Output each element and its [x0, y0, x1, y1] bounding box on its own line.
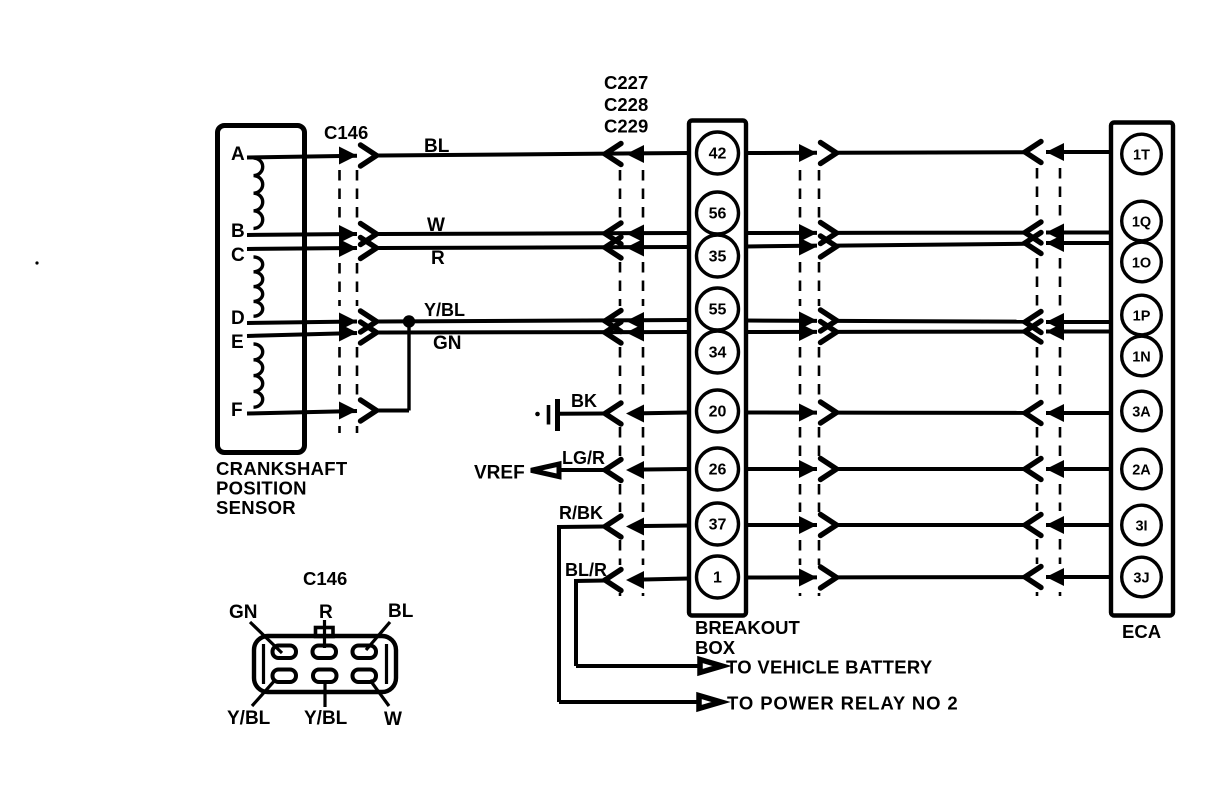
- wire label BL/R: [565, 560, 607, 580]
- ECA caption: [1122, 621, 1161, 642]
- breakout box right connector dashed line 2: [818, 170, 821, 596]
- svg-text:SENSOR: SENSOR: [216, 497, 296, 518]
- connector C146 label: [324, 122, 368, 143]
- svg-text:CRANKSHAFT: CRANKSHAFT: [216, 458, 348, 479]
- breakout box right connector arrows at y=412.5: [799, 402, 837, 423]
- svg-text:C146: C146: [324, 122, 368, 143]
- wire R/BK from breakout box pin 37 down to power relay lead: [558, 525, 690, 702]
- connector C146 dashed line 1: [338, 170, 341, 433]
- ECA connector arrows at y=243: [1025, 233, 1064, 254]
- svg-text:D: D: [231, 308, 245, 329]
- ECA pin 3I: [1122, 505, 1162, 545]
- ECA connector arrows at y=525: [1025, 515, 1064, 536]
- connector C146 face label W: [384, 709, 402, 730]
- connector C146 arrows at y=332.5: [339, 322, 377, 343]
- connector C227 arrows at y=580: [605, 570, 644, 591]
- wire label GN: [433, 333, 462, 354]
- svg-text:Y/BL: Y/BL: [227, 708, 271, 729]
- connector C146 face label Y/BL: [227, 708, 271, 729]
- breakout box pin 56: [697, 192, 739, 234]
- svg-text:BOX: BOX: [695, 637, 736, 658]
- svg-text:35: 35: [709, 249, 727, 266]
- wire label R/BK: [559, 503, 603, 523]
- svg-text:C228: C228: [604, 94, 648, 115]
- ECA connector dashed line 1: [1036, 168, 1039, 596]
- sensor pin D: [231, 308, 245, 329]
- ECA pin 3A: [1122, 391, 1162, 431]
- svg-text:ECA: ECA: [1122, 621, 1161, 642]
- wire GN from sensor pin E to breakout box pin 34: [247, 332, 689, 336]
- svg-text:1T: 1T: [1133, 148, 1150, 164]
- wire label BK: [571, 391, 597, 411]
- svg-text:Y/BL: Y/BL: [424, 300, 465, 320]
- ECA box: [1111, 123, 1173, 616]
- svg-text:1P: 1P: [1133, 309, 1151, 325]
- connector C146 arrows at y=234: [339, 224, 377, 245]
- breakout box caption: [695, 617, 801, 658]
- breakout box right connector arrows at y=246.5: [799, 236, 837, 257]
- breakout box right connector dashed line 1: [799, 170, 802, 596]
- svg-text:C146: C146: [303, 568, 347, 589]
- svg-text:BL/R: BL/R: [565, 560, 607, 580]
- svg-text:1O: 1O: [1132, 256, 1151, 272]
- connector C146 face label BL: [388, 601, 414, 622]
- wire W from sensor pin B to breakout box pin 56: [247, 233, 689, 235]
- svg-text:POSITION: POSITION: [216, 478, 307, 499]
- wire label VREF: [474, 463, 525, 484]
- svg-text:B: B: [231, 221, 245, 242]
- ECA pin 2A: [1122, 449, 1162, 489]
- ECA connector arrows at y=152: [1025, 142, 1064, 163]
- svg-text:LG/R: LG/R: [562, 448, 605, 468]
- ECA connector arrows at y=413: [1025, 403, 1064, 424]
- svg-text:TO VEHICLE BATTERY: TO VEHICLE BATTERY: [726, 657, 933, 678]
- breakout box pin 42: [697, 132, 739, 174]
- svg-text:1: 1: [713, 570, 722, 587]
- ground symbol: [535, 399, 557, 431]
- wire label W: [427, 215, 445, 236]
- ECA pin 1N: [1122, 336, 1162, 376]
- wire label LG/R: [562, 448, 605, 468]
- svg-text:C227: C227: [604, 72, 648, 93]
- svg-text:R: R: [319, 602, 333, 623]
- connector C146 face leader Y/BL middle: [323, 681, 326, 707]
- lead to vehicle battery: [576, 657, 933, 678]
- breakout box pin 35: [697, 235, 739, 277]
- breakout box pin 26: [697, 448, 739, 490]
- connector C227 dashed line 2: [642, 170, 645, 596]
- ECA pin 3J: [1122, 557, 1162, 597]
- connector C146 face leader W: [370, 680, 389, 706]
- connector C146 arrows at y=410.5: [339, 400, 377, 421]
- sensor pin C: [231, 245, 245, 266]
- sensor pin A: [231, 144, 245, 165]
- connector C227 arrows at y=154: [605, 144, 644, 165]
- svg-text:W: W: [384, 709, 402, 730]
- svg-text:42: 42: [709, 146, 727, 163]
- ECA connector dashed line 2: [1059, 168, 1062, 596]
- wire BL from sensor pin A to breakout box pin 42: [247, 153, 689, 158]
- svg-text:A: A: [231, 144, 245, 165]
- crankshaft position sensor box: [218, 126, 305, 453]
- wire Y/BL from sensor pin D to breakout box pin 55: [247, 320, 689, 323]
- ECA connector arrows at y=331.5: [1025, 321, 1064, 342]
- connector C227 arrows at y=526.5: [605, 516, 644, 537]
- svg-text:3A: 3A: [1132, 405, 1151, 421]
- breakout box right connector arrows at y=525: [799, 515, 837, 536]
- svg-text:BREAKOUT: BREAKOUT: [695, 617, 801, 638]
- svg-text:C229: C229: [604, 116, 648, 137]
- wire R from sensor pin C to breakout box pin 35: [247, 247, 689, 249]
- breakout box right connector arrows at y=153: [799, 143, 837, 164]
- svg-text:W: W: [427, 215, 445, 236]
- wire LG/R from VREF to breakout box pin 26: [559, 469, 689, 470]
- connector C146 face key tab: [316, 620, 334, 648]
- svg-text:R: R: [431, 248, 445, 269]
- breakout box right connector arrows at y=233: [799, 223, 837, 244]
- connector C227 arrows at y=470: [605, 460, 644, 481]
- wire BK from ground to breakout box pin 20: [558, 413, 690, 414]
- breakout box pin 55: [697, 288, 739, 330]
- svg-text:34: 34: [709, 345, 727, 362]
- connector C146 arrows at y=155.5: [339, 145, 377, 166]
- breakout box: [689, 121, 746, 616]
- connector C146 face label GN: [229, 602, 258, 623]
- svg-text:R/BK: R/BK: [559, 503, 603, 523]
- wire from sensor pin F to junction under Y/BL wire: [247, 321, 409, 414]
- svg-text:TO POWER RELAY NO 2: TO POWER RELAY NO 2: [727, 693, 959, 714]
- svg-text:26: 26: [709, 462, 727, 479]
- breakout box pin 37: [697, 503, 739, 545]
- svg-text:BK: BK: [571, 391, 597, 411]
- wire BL/R from breakout box pin 1 down to vehicle battery lead: [575, 579, 690, 667]
- svg-text:F: F: [231, 400, 243, 421]
- ECA pin 1O: [1122, 242, 1162, 282]
- svg-text:20: 20: [709, 404, 727, 421]
- wire breakout box pin 37 to ECA 3I: [746, 523, 1111, 527]
- connector C146 face cavity 5: [313, 670, 337, 683]
- connector C227 arrows at y=321: [605, 311, 644, 332]
- svg-text:55: 55: [709, 302, 727, 319]
- speck: [35, 261, 38, 264]
- wire breakout box pin 56 to ECA 1Q: [746, 231, 1111, 236]
- connector C227 arrows at y=247.5: [605, 237, 644, 258]
- connector C227 arrows at y=233.5: [605, 223, 644, 244]
- sensor caption: [216, 458, 348, 518]
- svg-text:Y/BL: Y/BL: [304, 708, 348, 729]
- VREF arrow: [531, 464, 559, 477]
- connector C146 face cavity 4: [273, 670, 297, 683]
- svg-text:VREF: VREF: [474, 463, 525, 484]
- connector C146 dashed line 2: [356, 170, 359, 433]
- ECA pin 1T: [1122, 134, 1162, 174]
- lead to power relay no 2: [559, 693, 959, 714]
- connector C146 face body: [254, 636, 396, 692]
- sensor pin E: [231, 332, 244, 353]
- junction dot on Y/BL wire: [403, 315, 415, 327]
- sensor coil winding A-B: [254, 158, 263, 228]
- ECA pin 1P: [1122, 295, 1162, 335]
- wire label Y/BL: [424, 300, 465, 320]
- breakout box pin 1: [697, 556, 739, 598]
- svg-text:BL: BL: [424, 136, 450, 157]
- connector C146 face label Y/BL: [304, 708, 348, 729]
- connector C227 arrows at y=332.5: [605, 322, 644, 343]
- connector C146 arrows at y=321.5: [339, 311, 377, 332]
- wire breakout box pin 26 to ECA 2A: [746, 467, 1111, 471]
- sensor coil winding C-D: [254, 257, 263, 316]
- breakout box pin 20: [697, 390, 739, 432]
- svg-text:E: E: [231, 332, 244, 353]
- wire breakout box pin 20 to ECA 3A: [746, 411, 1111, 416]
- ECA connector arrows at y=322: [1025, 312, 1064, 333]
- connector C146 face label: [303, 568, 347, 589]
- breakout box right connector arrows at y=469: [799, 459, 837, 480]
- svg-text:GN: GN: [433, 333, 462, 354]
- connector C146 arrows at y=248: [339, 238, 377, 259]
- svg-text:56: 56: [709, 206, 727, 223]
- svg-text:1N: 1N: [1132, 350, 1151, 366]
- sensor pin F: [231, 400, 243, 421]
- connector C227 arrows at y=413.5: [605, 403, 644, 424]
- svg-text:3I: 3I: [1135, 519, 1147, 535]
- ECA connector arrows at y=232.5: [1025, 222, 1064, 243]
- svg-text:1Q: 1Q: [1132, 215, 1151, 231]
- wire breakout box pin 55 to ECA 1P: [746, 321, 1111, 323]
- connector C146 face leader BL: [366, 622, 390, 650]
- svg-text:GN: GN: [229, 602, 258, 623]
- breakout box right connector arrows at y=320.5: [799, 310, 837, 331]
- connector C146 face label R: [319, 602, 333, 623]
- connector C146 face cavity 2: [313, 646, 337, 659]
- connector C146 face cavity 6: [353, 670, 377, 683]
- wire breakout box pin 34 to ECA 1N: [746, 330, 1111, 335]
- breakout box pin 34: [697, 331, 739, 373]
- breakout box right connector arrows at y=332: [799, 322, 837, 343]
- connector C146 face cavity 3: [353, 646, 377, 659]
- svg-text:C: C: [231, 245, 245, 266]
- sensor coil winding E-F: [254, 344, 263, 407]
- connector C146 face leader Y/BL left: [252, 679, 276, 706]
- ECA connector arrows at y=469: [1025, 459, 1064, 480]
- svg-text:3J: 3J: [1133, 571, 1149, 587]
- ECA pin 1Q: [1122, 201, 1162, 241]
- svg-text:37: 37: [709, 517, 727, 534]
- svg-text:2A: 2A: [1132, 463, 1151, 479]
- connector C227 dashed line 1: [619, 170, 622, 596]
- wire breakout box pin 1 to ECA 3J: [746, 575, 1111, 580]
- svg-text:BL: BL: [388, 601, 414, 622]
- breakout box right connector arrows at y=577.5: [799, 567, 837, 588]
- connector C146 face cavity 1: [273, 646, 297, 659]
- connector C227/C228/C229 labels: [604, 72, 648, 137]
- wire breakout box pin 42 to ECA 1T: [746, 152, 1111, 153]
- wire label BL: [424, 136, 450, 157]
- ECA connector arrows at y=577: [1025, 567, 1064, 588]
- wire breakout box pin 35 to ECA 1O: [746, 243, 1111, 247]
- sensor pin B: [231, 221, 245, 242]
- wire label R: [431, 248, 445, 269]
- connector C146 face leader GN: [250, 622, 282, 653]
